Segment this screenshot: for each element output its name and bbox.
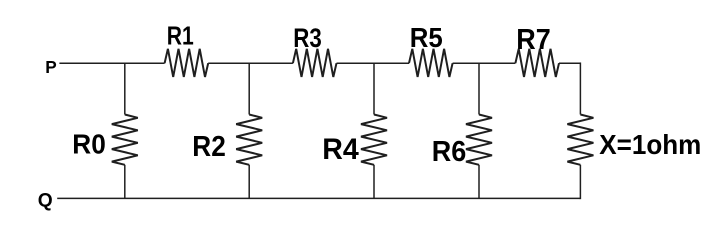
wire stem R0 top [124,63,126,114]
resistor R3 [293,49,337,77]
resistor X [567,115,593,165]
resistor R6 [466,115,492,165]
svg-text:R0: R0 [72,129,106,160]
resistor R2 [236,115,262,165]
resistor R5 [409,49,453,77]
svg-text:R3: R3 [293,23,322,53]
wire stem R0 bottom [124,165,126,199]
wire stem R4 top [373,63,375,114]
svg-text:R4: R4 [322,133,359,166]
svg-text:R5: R5 [410,22,443,53]
wire stem R6 top [478,63,480,114]
svg-text:R1: R1 [167,21,194,51]
wire top: R7 to right corner [559,62,580,64]
wire top: P to R1 [59,62,164,64]
resistor R4 [361,115,387,165]
wire stem X bottom [579,165,581,199]
wire top: R5 to R7 [453,62,516,64]
wire top: R1 to R3 [208,62,293,64]
resistor R0 [112,115,138,165]
wire stem R4 bottom [373,165,375,199]
svg-text:Q: Q [38,191,53,212]
resistor R7 [515,49,559,77]
svg-text:P: P [45,57,56,77]
wire stem R6 bottom [478,165,480,199]
resistor R1 [165,49,209,77]
wire top: R3 to R5 [337,62,410,64]
wire stem X top [579,62,581,114]
svg-text:X=1ohm: X=1ohm [599,129,701,160]
wire stem R2 bottom [248,165,250,199]
svg-text:R7: R7 [516,24,551,56]
wire bottom: Q rail [57,197,580,199]
wire stem R2 top [248,63,250,114]
svg-text:R2: R2 [192,131,226,163]
svg-text:R6: R6 [432,136,467,168]
